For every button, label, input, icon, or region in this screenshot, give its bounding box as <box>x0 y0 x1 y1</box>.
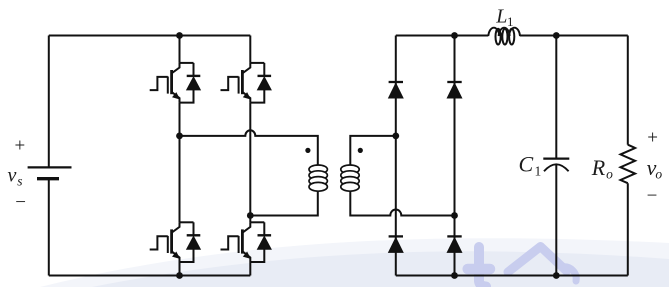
wire capacitor top lead <box>555 36 557 159</box>
wire node B to collector Q4 <box>249 216 251 223</box>
voltage source vs (battery) <box>28 167 72 178</box>
wire emitter Q1 to node A <box>179 103 181 136</box>
wire bottom rail of inverter <box>49 275 251 277</box>
diode D4 (rectifier bottom right) <box>447 236 461 252</box>
wire node A to collector Q3 <box>179 136 181 222</box>
wire emitter Q3 to bottom rail <box>179 262 181 276</box>
node: top rail / left leg junction <box>176 32 183 39</box>
node A: left leg midpoint <box>176 133 183 140</box>
wire transformer primary bottom to node B <box>250 191 317 216</box>
node: top rail / capacitor column <box>553 32 560 39</box>
wire capacitor bottom lead <box>555 165 557 276</box>
transformer secondary phase dot <box>358 148 363 153</box>
watermark <box>40 238 669 287</box>
node: bottom rail / capacitor column <box>553 272 560 279</box>
wire right output column top <box>627 36 629 145</box>
node: top rail / rectifier right column <box>451 32 458 39</box>
wire collector lead Q1 <box>179 36 181 63</box>
transformer primary winding <box>309 165 327 191</box>
svg-text:o: o <box>606 167 613 182</box>
wire node A to transformer primary top, with crossover hop at right leg <box>180 130 318 165</box>
svg-text:s: s <box>17 174 22 189</box>
svg-text:C: C <box>519 151 534 176</box>
svg-text:−: − <box>647 186 658 207</box>
capacitor C1 <box>543 159 569 172</box>
diode D3 (rectifier bottom left) <box>389 236 403 252</box>
diode D2 (rectifier top right) <box>447 82 461 98</box>
wire right output column bottom <box>627 183 629 275</box>
svg-text:−: − <box>15 192 26 213</box>
inductor L1 <box>488 28 520 45</box>
transistor Q2 (IGBT, right leg top) <box>221 63 272 103</box>
wire top rail rectifier to inductor <box>396 35 489 37</box>
transformer primary phase dot <box>305 148 310 153</box>
wire transformer secondary bottom to rectifier node D, with crossover hop <box>350 191 454 216</box>
resistor Ro <box>621 145 636 184</box>
wire inductor to top right corner <box>520 35 628 37</box>
wire rectifier right column <box>454 36 456 276</box>
transistor Q4 (IGBT, right leg bottom) <box>221 222 272 262</box>
svg-text:o: o <box>655 167 662 182</box>
transformer secondary winding <box>341 165 359 191</box>
svg-text:1: 1 <box>535 163 542 178</box>
wire emitter Q2 to node B <box>249 103 251 216</box>
svg-text:R: R <box>591 155 606 180</box>
svg-text:+: + <box>15 136 26 157</box>
diode D1 (rectifier top left) <box>389 82 403 98</box>
wire bottom rail rectifier <box>396 275 628 277</box>
svg-text:L: L <box>495 5 507 27</box>
node: bottom rail / rectifier right column <box>451 272 458 279</box>
svg-text:v: v <box>8 164 17 186</box>
transistor Q3 (IGBT, left leg bottom) <box>150 222 201 262</box>
wire transformer secondary top to rectifier node C <box>350 136 396 165</box>
node D: secondary bottom / rectifier right column <box>451 212 458 219</box>
wire top rail of inverter <box>49 35 251 37</box>
wire emitter Q4 to bottom rail <box>249 262 251 276</box>
wire battery positive lead <box>48 36 50 168</box>
transistor Q1 (IGBT, left leg top) <box>150 63 201 103</box>
wire rectifier left column <box>395 36 397 276</box>
svg-text:+: + <box>647 128 658 149</box>
node B: right leg midpoint <box>247 212 254 219</box>
svg-text:1: 1 <box>507 14 514 29</box>
node: bottom rail / left leg junction <box>176 272 183 279</box>
node C: secondary top / rectifier left column <box>392 133 399 140</box>
wire collector lead Q2 <box>249 36 251 63</box>
wire battery negative lead <box>48 179 50 276</box>
